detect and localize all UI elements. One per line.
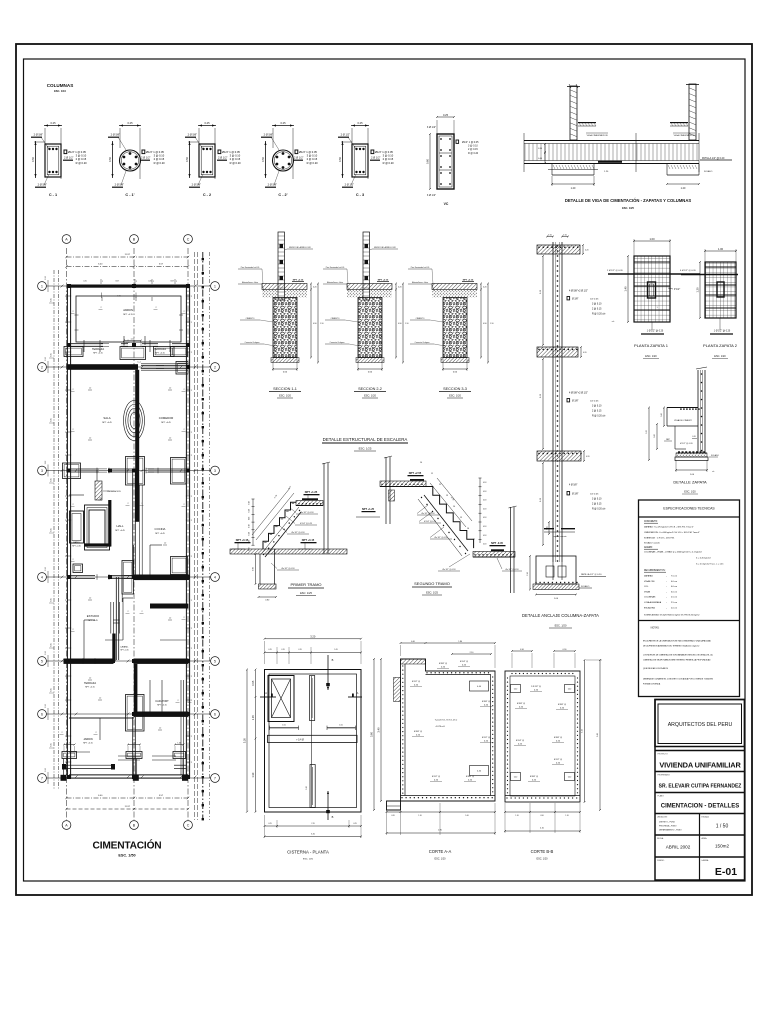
svg-text:2 Ø 1/2": 2 Ø 1/2": [341, 133, 351, 137]
cisterna bottom rebar capsule: [310, 765, 315, 808]
svg-text:2: 2: [214, 365, 216, 369]
planta zapata 1 dims: [634, 240, 670, 242]
cisterna section cut B top: [327, 655, 329, 690]
svg-text:Ø1/4" 1 @ 0.05: Ø1/4" 1 @ 0.05: [375, 150, 393, 154]
row4 thick band: [134, 575, 190, 581]
svg-text:6.40: 6.40: [98, 795, 103, 797]
svg-text:2: 2: [191, 700, 192, 702]
svg-text:2 Ø 5/8": 2 Ø 5/8": [115, 183, 125, 187]
jardin inner wall: [76, 296, 181, 342]
svg-text:1.05: 1.05: [282, 724, 286, 726]
svg-text:2: 2: [191, 556, 192, 558]
svg-text:Ø 1/4" @ 0.25: Ø 1/4" @ 0.25: [300, 523, 312, 525]
svg-text:SECCION 1-1: SECCION 1-1: [273, 387, 297, 391]
planta zapata 2 inner rebar lines: [705, 266, 736, 268]
svg-text:0.25: 0.25: [518, 743, 523, 745]
svg-text:NPT +1.25: NPT +1.25: [362, 508, 375, 511]
svg-text:-: -: [666, 586, 667, 588]
svg-text:FORMA CONTINUA: FORMA CONTINUA: [643, 683, 661, 686]
plan vertical grid line B: [133, 248, 135, 820]
svg-text:2 Ø 1/2": 2 Ø 1/2": [294, 156, 304, 160]
svg-text:-: -: [666, 591, 667, 593]
svg-text:1.00: 1.00: [67, 742, 71, 744]
svg-text:2: 2: [191, 600, 192, 602]
svg-text:7.5 cm: 7.5 cm: [671, 576, 677, 578]
svg-text:0.18: 0.18: [249, 517, 251, 520]
svg-text:1.65: 1.65: [334, 649, 337, 651]
svg-text:4.079 m3: 4.079 m3: [435, 726, 445, 728]
svg-text:1.0: 1.0: [89, 388, 91, 390]
svg-text:3.0 cm: 3.0 cm: [671, 591, 677, 593]
svg-text:4: 4: [214, 575, 216, 579]
svg-text:1.0: 1.0: [89, 678, 91, 680]
plan top dim ticks above wall: [100, 279, 102, 284]
svg-text:LAMINA:: LAMINA:: [702, 859, 710, 862]
svg-text:BAÑO: BAÑO: [73, 541, 79, 544]
svg-text:14: 14: [453, 506, 456, 508]
corte BB right dims: [584, 660, 586, 802]
svg-text:3 @ 0.10: 3 @ 0.10: [592, 499, 602, 501]
svg-text:SR. ELEVAIR CUTIPA FERNANDEZ: SR. ELEVAIR CUTIPA FERNANDEZ: [659, 784, 742, 790]
row4 right pad: [171, 557, 188, 575]
svg-text:0.18: 0.18: [249, 532, 251, 535]
column section C - 2': [272, 125, 294, 127]
svg-text:6: 6: [214, 712, 216, 716]
svg-text:1.0: 1.0: [99, 498, 101, 500]
svg-text:NPT +0.45: NPT +0.45: [161, 422, 171, 424]
svg-text:2 Ø 5/8": 2 Ø 5/8": [192, 183, 202, 187]
svg-text:NPT +0.45: NPT +0.45: [120, 650, 128, 652]
planta zapata 1 body: [634, 256, 670, 322]
svg-text:1.00: 1.00: [554, 598, 559, 600]
svg-text:VIVIENDA UNIFAMILIAR: VIVIENDA UNIFAMILIAR: [659, 761, 741, 770]
svg-text:4 Ø 5/8": 4 Ø 5/8": [569, 485, 578, 487]
svg-text:SECCION 2-2: SECCION 2-2: [358, 387, 382, 391]
svg-text:0.80: 0.80: [265, 599, 270, 601]
svg-text:0.18: 0.18: [483, 535, 486, 537]
svg-text:PLANO:: PLANO:: [658, 795, 665, 798]
svg-text:1: 1: [41, 284, 43, 288]
svg-text:4.0 cm: 4.0 cm: [671, 586, 677, 588]
svg-text:2: 2: [72, 311, 73, 313]
svg-text:2 Ø 1/2": 2 Ø 1/2": [371, 156, 381, 160]
svg-text:0.25: 0.25: [51, 298, 53, 301]
svg-text:0.20: 0.20: [398, 287, 402, 289]
garden low wall: [64, 764, 116, 766]
svg-text:Ø 1/2" @: Ø 1/2" @: [432, 776, 440, 778]
svg-text:0.25: 0.25: [268, 823, 271, 825]
svg-text:0.15: 0.15: [547, 526, 549, 529]
svg-text:AREA:: AREA:: [702, 837, 708, 840]
svg-text:0.25: 0.25: [204, 121, 210, 125]
sheet outer border: [16, 44, 752, 895]
svg-text:PROVINCIA - PUNO: PROVINCIA - PUNO: [659, 825, 677, 828]
svg-text:2 @ 0.15: 2 @ 0.15: [307, 157, 318, 161]
svg-text:0.18: 0.18: [483, 500, 486, 502]
svg-text:2: 2: [72, 389, 73, 391]
svg-text:4.0 cm: 4.0 cm: [671, 581, 677, 583]
svg-text:0.18: 0.18: [249, 509, 251, 512]
svg-text:2.10: 2.10: [470, 652, 474, 654]
svg-text:DETALLE ESTRUCTURAL DE ESCALER: DETALLE ESTRUCTURAL DE ESCALERA: [323, 437, 408, 442]
svg-text:2: 2: [65, 322, 66, 324]
column section C - 2: [198, 125, 216, 127]
svg-text:ARQUITECTOS DEL PERU: ARQUITECTOS DEL PERU: [668, 722, 733, 728]
svg-text:0.20: 0.20: [556, 740, 561, 742]
svg-text:Ø 1/4" @: Ø 1/4" @: [460, 661, 468, 663]
svg-text:3 @ 0.10: 3 @ 0.10: [307, 154, 318, 158]
svg-text:0.20: 0.20: [441, 666, 446, 668]
svg-text:3.09: 3.09: [115, 281, 118, 283]
svg-text:1.76: 1.76: [450, 497, 455, 502]
svg-text:3 @ 0.10: 3 @ 0.10: [468, 145, 478, 148]
svg-text:LOS NIVELES DE CIMENTACION SON: LOS NIVELES DE CIMENTACION SON VARIABLES…: [643, 654, 713, 657]
svg-text:TERRAZA: TERRAZA: [92, 347, 104, 351]
svg-text:COLUMNAS: COLUMNAS: [47, 83, 74, 88]
svg-text:1 Ø 1/2" @ 0.20: 1 Ø 1/2" @ 0.20: [714, 331, 731, 333]
svg-text:2: 2: [191, 496, 192, 498]
svg-text:-: -: [666, 581, 667, 583]
svg-text:Material base - falso: Material base - falso: [412, 281, 428, 284]
svg-text:2 Ø 5/8": 2 Ø 5/8": [38, 183, 48, 187]
svg-text:2: 2: [183, 429, 184, 431]
svg-text:2: 2: [136, 281, 137, 283]
svg-text:ESC. 1/20: ESC. 1/20: [555, 624, 567, 628]
svg-text:NPT +0.45: NPT +0.45: [102, 422, 112, 424]
plan grid row lines and bubbles: [47, 285, 211, 287]
svg-text:Ø 3/8" @: Ø 3/8" @: [517, 703, 525, 705]
svg-text:Ø 3/8" @: Ø 3/8" @: [414, 731, 422, 733]
row4 left wall: [69, 575, 95, 577]
svg-text:0.25: 0.25: [357, 121, 363, 125]
corte AA top slab lines: [426, 674, 492, 676]
svg-text:2: 2: [183, 617, 184, 619]
svg-text:1.0: 1.0: [169, 438, 171, 440]
row3 right pad: [171, 458, 187, 485]
svg-text:B: B: [332, 658, 334, 662]
svg-text:-: -: [666, 597, 667, 599]
svg-text:ESPECIFICACIONES TECNICAS: ESPECIFICACIONES TECNICAS: [663, 507, 715, 511]
svg-text:COLUMNAS: COLUMNAS: [644, 596, 656, 599]
svg-text:R @ 0.20: R @ 0.20: [307, 161, 319, 165]
svg-text:CISTERNA - PLANTA: CISTERNA - PLANTA: [287, 850, 329, 855]
svg-text:Ø 1/2" @: Ø 1/2" @: [412, 681, 420, 683]
svg-text:2: 2: [183, 389, 184, 391]
svg-text:5: 5: [41, 659, 43, 663]
svg-text:SOLADO: e=0.05: SOLADO: e=0.05: [644, 542, 661, 545]
plan top dimension chain: [67, 256, 189, 258]
svg-text:CIMENTACIÓN: CIMENTACIÓN: [93, 839, 162, 852]
svg-text:2.92: 2.92: [45, 704, 47, 708]
svg-text:1.10: 1.10: [405, 323, 409, 325]
svg-text:0.95: 0.95: [251, 680, 255, 686]
svg-text:17: 17: [473, 539, 476, 541]
svg-text:0.25: 0.25: [462, 664, 467, 666]
svg-text:NPT -0.45: NPT -0.45: [491, 541, 503, 545]
svg-text:1.20: 1.20: [571, 187, 576, 190]
svg-text:2.5 cm: 2.5 cm: [671, 597, 677, 599]
svg-text:1.20: 1.20: [696, 287, 700, 293]
lamina row: [655, 856, 745, 858]
svg-text:NPT +0.15: NPT +0.15: [93, 353, 103, 355]
svg-text:2: 2: [155, 307, 156, 309]
propietario row: [655, 771, 745, 773]
corte AA left wall inner: [404, 664, 406, 796]
svg-text:2 Ø 1/2": 2 Ø 1/2": [218, 156, 228, 160]
svg-text:B: B: [332, 815, 334, 819]
bottom pads row7: [62, 752, 77, 759]
svg-text:UBICACION:: UBICACION:: [657, 816, 668, 819]
detalle zapata bottom dim: [676, 469, 707, 471]
svg-text:1@ 0.05: 1@ 0.05: [590, 401, 599, 403]
svg-text:0.25: 0.25: [51, 478, 53, 481]
svg-text:6 Ø 1/2" @ 0.20: 6 Ø 1/2" @ 0.20: [680, 270, 696, 272]
svg-text:R @ 0.20: R @ 0.20: [154, 161, 166, 165]
svg-text:12: 12: [439, 484, 442, 486]
cisterna planta dims left: [246, 670, 248, 812]
svg-text:2.92: 2.92: [45, 567, 47, 571]
svg-text:Ø 3/8": Ø 3/8": [572, 299, 579, 301]
svg-text:1.20: 1.20: [681, 187, 686, 190]
wall row3-4 interior thick: [108, 500, 111, 547]
proyecto row: [655, 750, 745, 752]
svg-text:0.25: 0.25: [51, 528, 53, 531]
svg-text:0.18: 0.18: [483, 508, 486, 510]
svg-text:2: 2: [141, 503, 142, 505]
svg-text:2: 2: [72, 504, 73, 506]
svg-text:0.40: 0.40: [514, 777, 517, 779]
svg-text:2 @ 0.15: 2 @ 0.15: [592, 504, 602, 506]
column section C - 3: [351, 125, 369, 127]
plan bottom dimension chain: [67, 797, 189, 799]
svg-text:P 1/2": P 1/2": [674, 289, 680, 291]
svg-text:COLUMNAS - VIGAS - LOSAS: fy: COLUMNAS - VIGAS - LOSAS: fy = 4200 kg/c…: [644, 551, 703, 554]
svg-text:NPT +0.15: NPT +0.15: [302, 538, 315, 542]
svg-text:CIMENTACION - DETALLES: CIMENTACION - DETALLES: [661, 804, 739, 810]
svg-text:2.92: 2.92: [45, 357, 47, 361]
svg-text:COMEDOR: COMEDOR: [159, 416, 174, 420]
column 2 above beam: [689, 84, 696, 140]
svg-text:1.80: 1.80: [458, 641, 462, 643]
svg-text:Ø1/4" 1 @ 0.05: Ø1/4" 1 @ 0.05: [68, 150, 86, 154]
anclaje lower slab stubs: [544, 528, 554, 529]
svg-text:2: 2: [191, 628, 192, 630]
svg-text:1.0: 1.0: [99, 698, 101, 700]
svg-text:-: -: [666, 602, 667, 604]
svg-text:4 Ø 5/8"+2 Ø 1/2": 4 Ø 5/8"+2 Ø 1/2": [569, 290, 588, 293]
svg-text:NPT +1.25: NPT +1.25: [305, 490, 318, 494]
svg-text:0.20: 0.20: [434, 779, 439, 781]
cisterna registro crossed box: [268, 676, 294, 722]
zapata dimension right: [667, 183, 699, 185]
svg-text:0.18: 0.18: [483, 544, 486, 546]
svg-text:2: 2: [65, 296, 66, 298]
svg-text:0.60: 0.60: [411, 641, 415, 643]
svg-text:ESC: 1/25: ESC: 1/25: [426, 591, 438, 595]
svg-text:4 Ø 5/8"+2 Ø 1/2": 4 Ø 5/8"+2 Ø 1/2": [569, 392, 588, 395]
svg-text:2 @ 0.15: 2 @ 0.15: [468, 148, 478, 151]
row5 thick bands: [64, 659, 114, 664]
svg-text:ESC. 1/20: ESC. 1/20: [645, 355, 657, 358]
svg-text:Ø 3/8" @: Ø 3/8" @: [558, 704, 566, 706]
svg-text:Material base - falso: Material base - falso: [242, 281, 258, 284]
svg-text:0.15: 0.15: [548, 235, 552, 237]
svg-text:2: 2: [176, 281, 177, 283]
property boundary dashed lines left: [53, 270, 55, 790]
svg-text:ESC. 1/20: ESC. 1/20: [714, 355, 726, 358]
svg-text:ESC: 1/25: ESC: 1/25: [300, 591, 312, 595]
column section VC: [437, 116, 454, 118]
svg-text:2 Ø 1/2": 2 Ø 1/2": [345, 183, 355, 187]
cisterna mid rebar T-bars: [270, 727, 299, 729]
svg-text:ESC. 1/20: ESC. 1/20: [435, 858, 447, 861]
corte BB bottom slab: [505, 795, 580, 797]
svg-text:2.92: 2.92: [45, 461, 47, 465]
svg-text:LAVAND.: LAVAND.: [120, 646, 129, 649]
svg-text:PROYECTO:: PROYECTO:: [658, 754, 669, 756]
svg-text:3 Ø 1/2": 3 Ø 1/2": [427, 126, 436, 129]
svg-text:EN LA PARTE DE LA CIMENTACION: EN LA PARTE DE LA CIMENTACION SE HA CONS…: [643, 640, 712, 643]
svg-text:0.50: 0.50: [185, 156, 189, 162]
svg-text:-: -: [666, 607, 667, 609]
svg-text:3.40: 3.40: [377, 727, 381, 733]
sala-comedor stair oval: [124, 401, 145, 441]
bath tub rects: [70, 511, 84, 543]
svg-text:2: 2: [191, 352, 192, 354]
svg-text:DETALLE ANCLAJE COLUMNA-ZAPATA: DETALLE ANCLAJE COLUMNA-ZAPATA: [522, 613, 599, 618]
svg-text:Ø 3/8" @: Ø 3/8" @: [530, 776, 538, 778]
svg-text:Ø 1/4" @ 0.25: Ø 1/4" @ 0.25: [424, 521, 436, 523]
svg-text:0.18: 0.18: [483, 482, 486, 484]
svg-text:R @ 0.20 c/e: R @ 0.20 c/e: [592, 314, 606, 316]
svg-text:0.20: 0.20: [484, 704, 489, 706]
corte AA left dims: [380, 659, 382, 801]
viga de cimentacion beam: [524, 140, 699, 142]
svg-text:0.20: 0.20: [586, 456, 590, 458]
svg-text:1.0: 1.0: [159, 728, 161, 730]
svg-text:ESC. 1/20: ESC. 1/20: [303, 859, 314, 861]
svg-text:SOLADO: SOLADO: [704, 170, 713, 173]
plan vertical grid line A: [66, 248, 68, 820]
svg-text:B: B: [133, 824, 136, 828]
svg-text:fs = 0.5 kg/cm2 Tracc. s =: fs = 0.5 kg/cm2 Tracc. s = 1.45: [696, 564, 724, 566]
svg-text:0.20: 0.20: [468, 779, 473, 781]
svg-text:0.90: 0.90: [483, 323, 487, 325]
svg-text:0.25: 0.25: [51, 743, 53, 746]
terraza jardin walls lower: [132, 717, 134, 777]
column section C - 1: [44, 125, 62, 127]
svg-text:Øx 1/2" @ 0.18: Øx 1/2" @ 0.18: [282, 568, 295, 570]
svg-text:3 @ 0.10: 3 @ 0.10: [383, 154, 394, 158]
svg-text:1.30: 1.30: [251, 772, 255, 778]
planta zapata 2 dims: [705, 250, 736, 252]
svg-text:SECCION 3-3: SECCION 3-3: [443, 387, 467, 391]
svg-text:1.05: 1.05: [339, 724, 343, 726]
planta zapata 1 column core: [648, 282, 656, 298]
ubicacion escala row: [655, 813, 745, 815]
plan grid bubbles bottom: [62, 821, 71, 830]
svg-text:A: A: [265, 692, 267, 695]
svg-text:CORTE B-B: CORTE B-B: [531, 849, 554, 854]
svg-text:4: 4: [41, 575, 43, 579]
svg-text:1.50: 1.50: [527, 572, 529, 576]
corte BB bottom dims: [505, 811, 530, 813]
cisterna planta dims top: [265, 638, 362, 640]
svg-text:PLANTA ZAPATA 2: PLANTA ZAPATA 2: [703, 343, 738, 348]
svg-text:1.0: 1.0: [169, 618, 171, 620]
anclaje column shaft: [552, 242, 554, 562]
svg-text:2: 2: [65, 520, 66, 522]
primer tramo foundation pit: [259, 554, 261, 584]
svg-text:R @ 0.20: R @ 0.20: [468, 152, 479, 155]
svg-text:Øx 1/2" @ 0.18: Øx 1/2" @ 0.18: [435, 537, 448, 539]
svg-text:SALA: SALA: [103, 416, 110, 420]
svg-text:Concreto Ciclopeo: Concreto Ciclopeo: [415, 341, 430, 344]
svg-text:0.25: 0.25: [353, 823, 356, 825]
anclaje footing bottom dim: [536, 594, 576, 596]
row6 thick band: [134, 712, 189, 717]
segundo tramo stair slab underside: [424, 495, 468, 551]
svg-text:2: 2: [191, 676, 192, 678]
svg-text:R @ 0.20: R @ 0.20: [230, 161, 242, 165]
title block outer frame: [655, 700, 745, 881]
svg-text:NPT +0.15: NPT +0.15: [123, 314, 133, 316]
foundation strip row2 thick left: [67, 364, 139, 370]
svg-text:c/s: c/s: [712, 471, 714, 473]
svg-text:COCINA: COCINA: [155, 527, 166, 531]
cisterna center beam capsule: [268, 735, 358, 742]
seccion 1-1 wall and footing: [278, 232, 285, 300]
planta zapata 1 main bar line: [608, 273, 700, 275]
svg-text:SOBRECARGAS: S/C AZOTEA 150 kg: SOBRECARGAS: S/C AZOTEA 150 kg/m2 S/C PI…: [644, 614, 699, 617]
svg-text:2 @ 0.15: 2 @ 0.15: [76, 157, 87, 161]
svg-text:PATILLA 1/2" @ 0.20: PATILLA 1/2" @ 0.20: [702, 157, 725, 160]
svg-text:Øx 1/2" @ 0.18: Øx 1/2" @ 0.18: [443, 569, 456, 571]
svg-text:0.50: 0.50: [108, 156, 112, 162]
svg-text:VIGAS: VIGAS: [644, 590, 651, 593]
svg-text:VIGA CIMENTACION: VIGA CIMENTACION: [674, 134, 695, 137]
svg-text:2: 2: [127, 611, 128, 613]
svg-text:2: 2: [65, 700, 66, 702]
svg-text:5.57: 5.57: [159, 264, 164, 266]
svg-text:2: 2: [191, 736, 192, 738]
svg-text:QUE INDICAN LOS PLANOS: QUE INDICAN LOS PLANOS: [643, 667, 669, 670]
svg-text:Øx 1/2" @ 0.18: Øx 1/2" @ 0.18: [506, 569, 519, 571]
column 1 above beam: [570, 86, 577, 140]
svg-text:ESC: 1/25: ESC: 1/25: [359, 447, 372, 451]
svg-text:2: 2: [191, 432, 192, 434]
svg-text:Ø 1/2" @ 0.20: Ø 1/2" @ 0.20: [680, 443, 694, 445]
svg-text:CONCRETO:: CONCRETO:: [644, 521, 658, 523]
svg-text:+ 1/4 Ø: + 1/4 Ø: [296, 740, 304, 742]
vertical wall estudio: [115, 577, 117, 660]
svg-text:0.25: 0.25: [51, 643, 53, 646]
segundo tramo right wall: [510, 507, 512, 593]
svg-text:16: 16: [467, 528, 470, 530]
svg-text:Ø 3/8" @: Ø 3/8" @: [439, 663, 447, 665]
svg-text:0.20: 0.20: [416, 734, 421, 736]
svg-text:DISTRITO - PUNO: DISTRITO - PUNO: [659, 822, 675, 824]
plan interior partition stubs: [83, 340, 85, 352]
svg-text:0.60: 0.60: [453, 372, 458, 374]
anclaje storey dims: [542, 256, 544, 345]
svg-text:Ø1/4" 1 @ 0.05: Ø1/4" 1 @ 0.05: [462, 141, 479, 144]
svg-text:E-01: E-01: [715, 866, 737, 878]
svg-text:1.20: 1.20: [604, 171, 609, 173]
svg-text:NPT +0.15: NPT +0.15: [236, 538, 249, 542]
svg-text:1.10: 1.10: [515, 815, 518, 817]
segundo tramo diagonal dims: [426, 452, 452, 478]
